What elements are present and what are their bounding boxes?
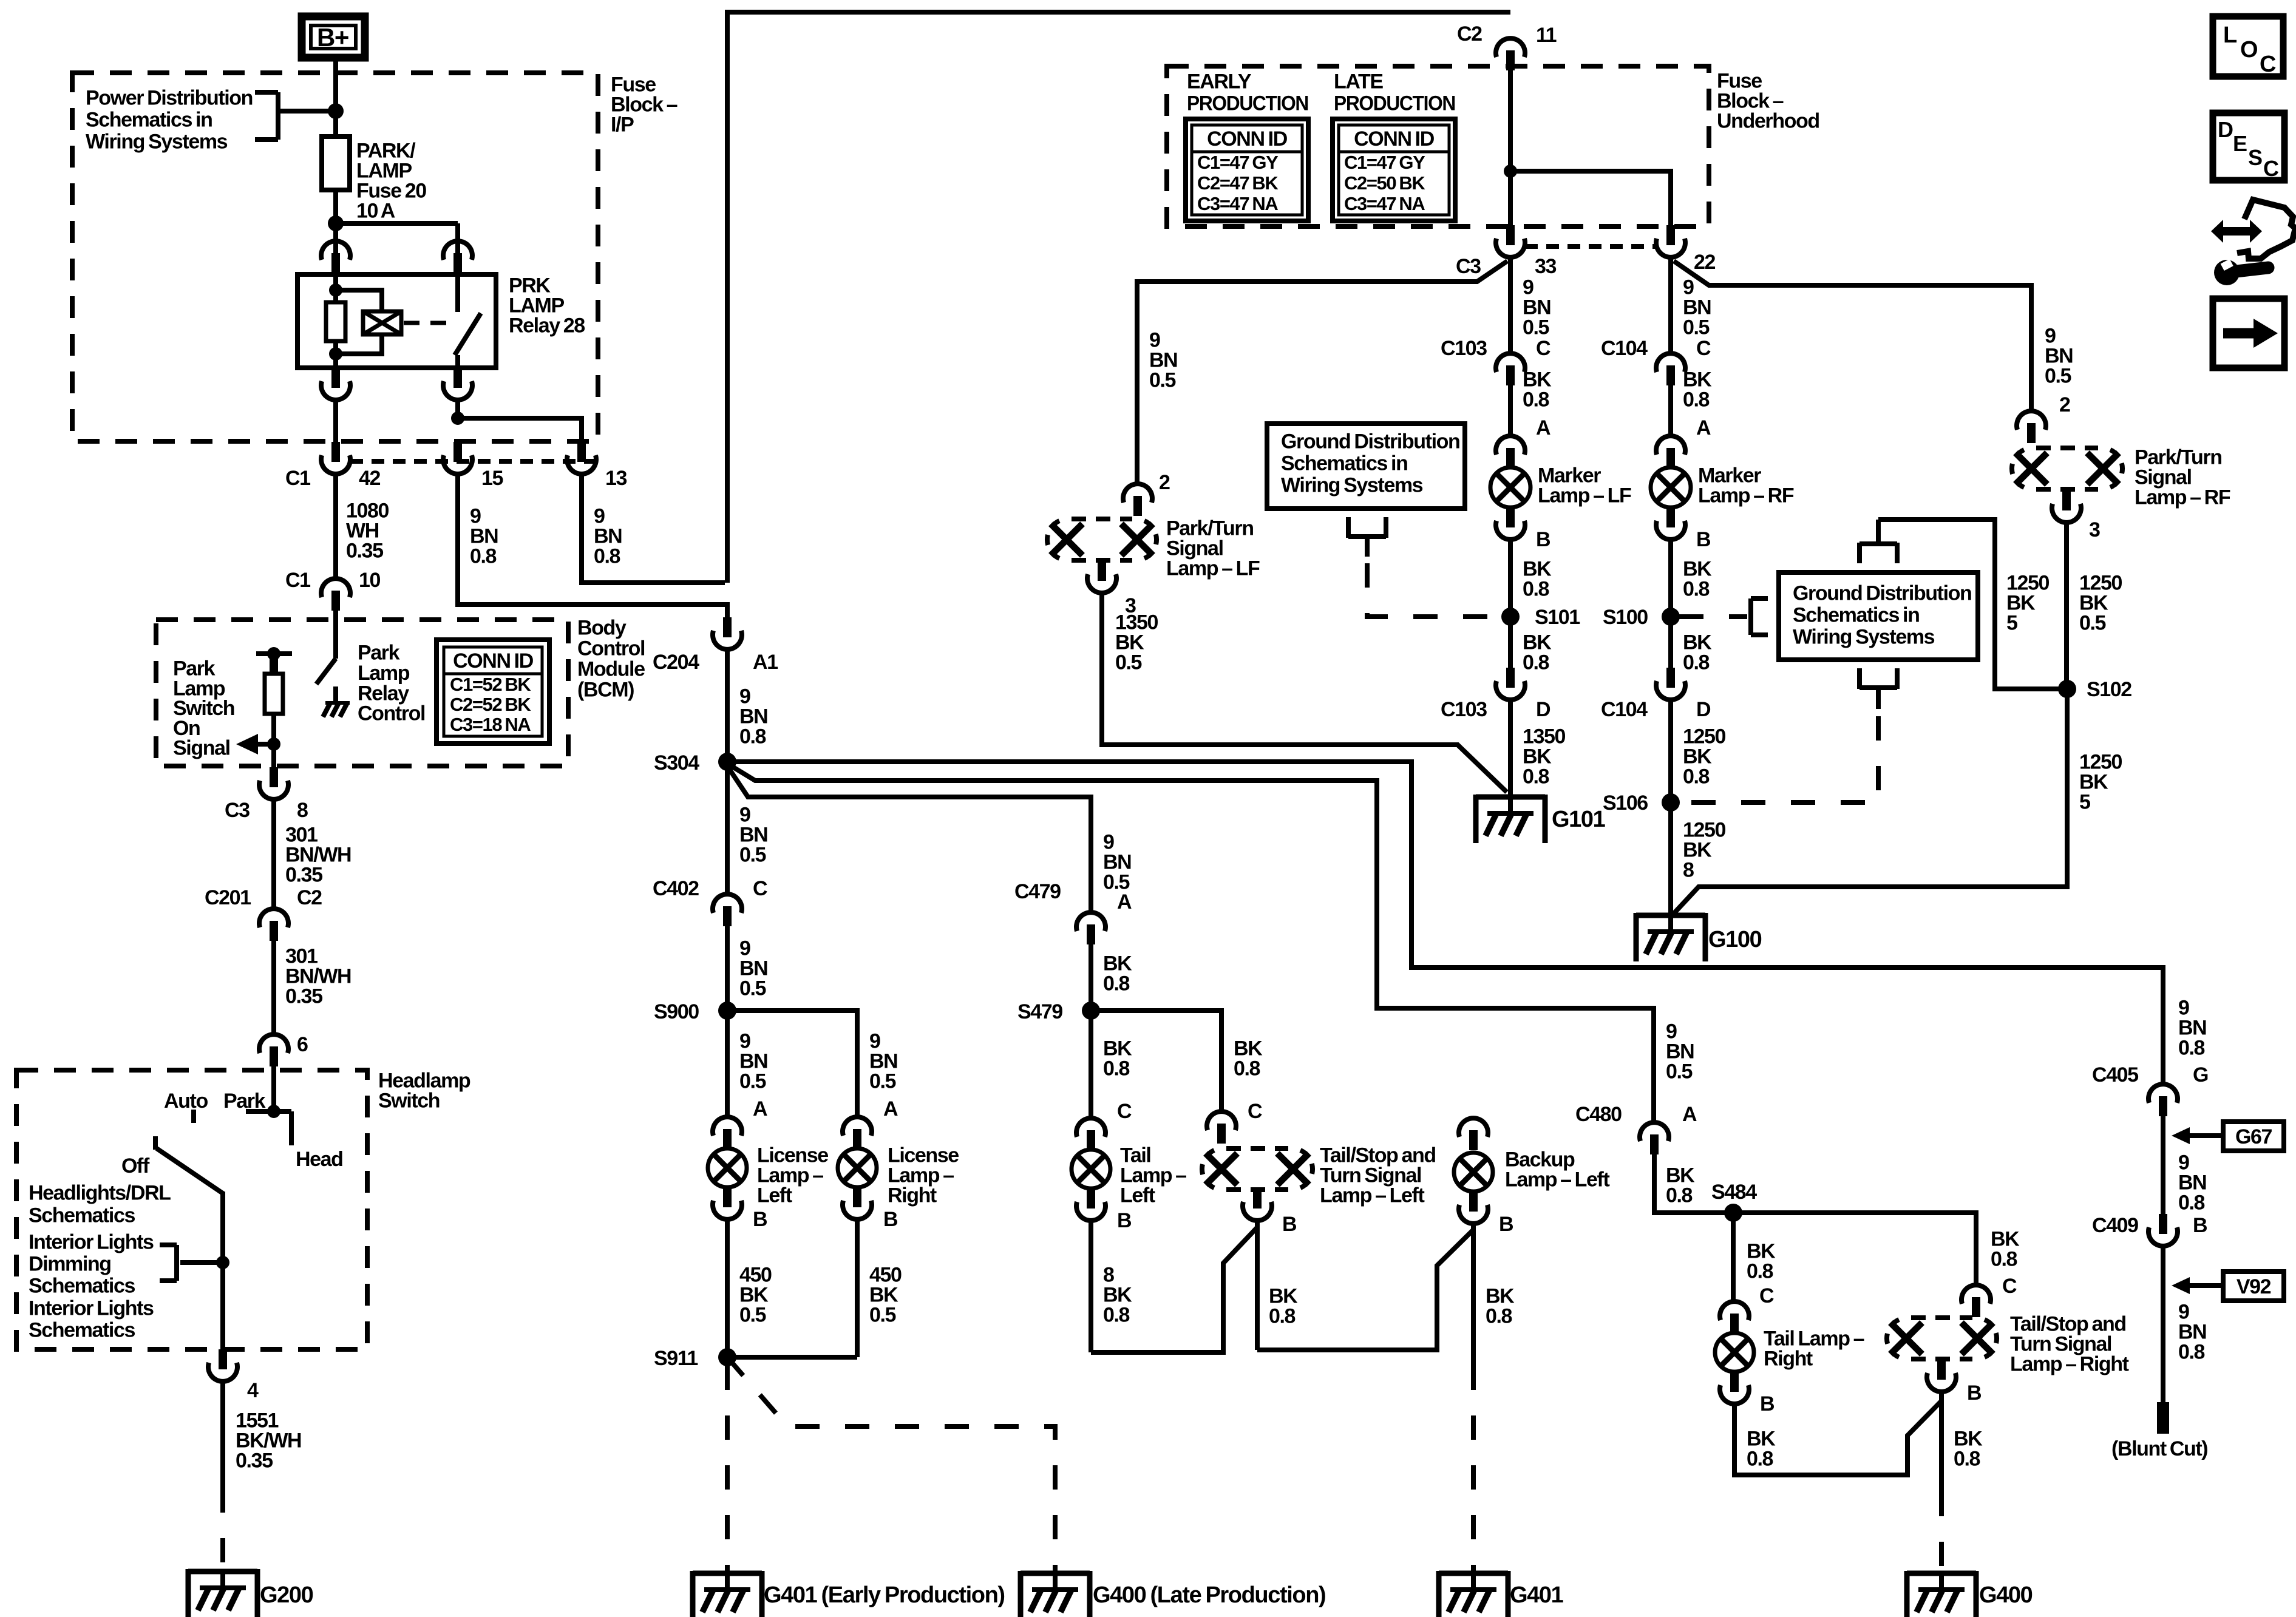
svg-text:Power Distribution: Power Distribution	[86, 87, 253, 110]
svg-text:LATE: LATE	[1334, 70, 1383, 93]
blunt cut terminal	[2157, 1402, 2169, 1434]
node park position	[267, 1105, 280, 1118]
svg-text:Lamp – RF: Lamp – RF	[2135, 486, 2230, 509]
lamp marker LF	[1490, 467, 1530, 507]
svg-text:B: B	[1499, 1213, 1513, 1236]
svg-text:CONN ID: CONN ID	[1207, 127, 1288, 151]
splice S102	[2058, 680, 2076, 698]
svg-text:0.5: 0.5	[869, 1070, 896, 1093]
ground G401 early	[693, 1571, 762, 1576]
svg-text:B: B	[1536, 528, 1550, 551]
svg-text:Dimming: Dimming	[29, 1253, 111, 1276]
svg-text:8: 8	[297, 799, 308, 822]
lamp tail right	[1715, 1333, 1754, 1372]
node relay coil top	[329, 283, 342, 297]
lamp tail left	[1072, 1150, 1110, 1188]
svg-text:C201: C201	[205, 886, 251, 909]
splice S101	[1501, 608, 1520, 626]
box ground distribution 1	[1267, 424, 1465, 509]
connector RF lamp 2	[2017, 411, 2046, 430]
wire fuse to relay	[333, 190, 338, 253]
connector license left A	[713, 1117, 742, 1136]
svg-text:Lamp – Right: Lamp – Right	[2010, 1353, 2129, 1376]
svg-text:V92: V92	[2237, 1275, 2271, 1298]
connector backup top	[1459, 1118, 1488, 1137]
svg-text:22: 22	[1694, 251, 1716, 274]
svg-text:S911: S911	[654, 1347, 698, 1370]
wire switch down	[220, 1192, 225, 1349]
svg-text:Ground Distribution: Ground Distribution	[1793, 582, 1971, 605]
ground G400 late	[1021, 1571, 1090, 1576]
svg-text:3: 3	[2089, 518, 2100, 541]
relay coil symbol	[363, 311, 401, 334]
svg-text:G: G	[2193, 1063, 2208, 1086]
wire to bracket	[278, 109, 336, 114]
svg-text:Relay 28: Relay 28	[509, 314, 585, 337]
node power distribution tap	[328, 103, 344, 119]
svg-text:Control: Control	[577, 637, 645, 660]
svg-text:0.8: 0.8	[594, 545, 620, 568]
icon LOC box	[2213, 16, 2283, 76]
svg-text:E: E	[2233, 131, 2247, 156]
svg-text:A: A	[1682, 1103, 1697, 1126]
svg-text:B: B	[1117, 1209, 1132, 1232]
svg-text:Wiring Systems: Wiring Systems	[1281, 474, 1423, 497]
svg-text:S900: S900	[654, 1000, 699, 1023]
svg-text:Underhood: Underhood	[1717, 110, 1819, 133]
svg-text:0.35: 0.35	[236, 1449, 273, 1473]
wire relay switch out	[455, 401, 460, 418]
wire 301 BN/WH lower	[271, 941, 276, 1033]
wire C480 down	[1654, 1154, 1733, 1213]
node underhood split	[1504, 164, 1517, 178]
headlamp switch blade	[157, 1148, 223, 1193]
svg-text:Lamp – Left: Lamp – Left	[1320, 1184, 1424, 1207]
wire LF lamp ground	[1102, 594, 1507, 792]
wire 22 down	[1668, 259, 1673, 352]
svg-text:Schematics: Schematics	[29, 1319, 135, 1342]
wire tail right down	[1734, 1401, 1941, 1475]
svg-text:10 A: 10 A	[356, 200, 395, 223]
connector C201	[259, 909, 288, 927]
svg-text:A1: A1	[753, 651, 778, 674]
svg-text:B: B	[1282, 1213, 1297, 1236]
svg-text:A: A	[1696, 416, 1711, 439]
wire coil branch	[336, 290, 382, 313]
ground G100	[1636, 913, 1705, 918]
svg-text:0.5: 0.5	[739, 1304, 766, 1327]
node signal top	[267, 647, 280, 660]
wire C409 down	[2161, 1247, 2165, 1405]
svg-text:C2=50 BK: C2=50 BK	[1344, 172, 1425, 194]
svg-text:G101: G101	[1552, 807, 1606, 832]
svg-text:Schematics: Schematics	[29, 1275, 135, 1298]
splice S911	[718, 1348, 736, 1366]
connector C1 pin 15	[453, 442, 462, 462]
fuse PARK/LAMP Fuse 20	[322, 137, 350, 190]
wire license left down	[725, 1221, 730, 1357]
connector tail left C	[1076, 1118, 1106, 1137]
svg-text:Interior Lights: Interior Lights	[29, 1297, 154, 1320]
wire branch to relay switch	[336, 221, 458, 226]
svg-text:0.5: 0.5	[1115, 651, 1142, 674]
svg-text:G100: G100	[1708, 927, 1762, 952]
off contact stub	[153, 1136, 158, 1150]
svg-text:S304: S304	[654, 751, 699, 775]
svg-text:C104: C104	[1601, 698, 1648, 721]
svg-text:0.8: 0.8	[1683, 651, 1710, 674]
svg-text:2: 2	[1159, 471, 1170, 494]
splice S100	[1662, 608, 1680, 626]
park contact bar	[246, 1109, 291, 1114]
svg-text:Schematics in: Schematics in	[1793, 604, 1919, 627]
svg-text:PRODUCTION: PRODUCTION	[1187, 92, 1308, 115]
svg-text:PRODUCTION: PRODUCTION	[1334, 92, 1455, 115]
lamp backup left	[1454, 1153, 1493, 1192]
svg-text:Relay: Relay	[358, 682, 409, 705]
lamp tailstop left	[1226, 1146, 1288, 1151]
wire tailstop right down	[1939, 1393, 1944, 1492]
node relay coil bottom	[329, 347, 342, 361]
wire S484 right	[1733, 1213, 1976, 1284]
svg-text:0.8: 0.8	[1523, 388, 1549, 412]
connector marker RF A	[1656, 436, 1685, 455]
relay switch out wire	[455, 355, 460, 368]
fuse block underhood dashed box	[1167, 66, 1709, 226]
connector C103 D	[1506, 668, 1515, 688]
connector RF lamp 3	[2062, 490, 2071, 510]
wire S911 bar	[727, 1355, 857, 1360]
svg-text:Park: Park	[223, 1090, 266, 1113]
wire pin15 to C204	[458, 475, 727, 617]
svg-text:0.5: 0.5	[739, 844, 766, 867]
svg-text:0.5: 0.5	[1683, 316, 1710, 339]
svg-text:C2=52 BK: C2=52 BK	[450, 694, 531, 715]
svg-text:G400 (Late Production): G400 (Late Production)	[1093, 1582, 1325, 1608]
svg-text:Body: Body	[577, 617, 627, 640]
pointer bracket interior lights dimming	[174, 1245, 179, 1281]
svg-text:Lamp – RF: Lamp – RF	[1698, 484, 1794, 507]
svg-text:C479: C479	[1014, 880, 1061, 903]
wire C2 into block	[1508, 70, 1513, 225]
box ground distribution 2	[1779, 572, 1978, 660]
svg-text:B: B	[1696, 528, 1711, 551]
svg-text:Wiring Systems: Wiring Systems	[1793, 626, 1935, 649]
wire resistor down	[271, 714, 276, 767]
svg-text:C3=47 NA: C3=47 NA	[1197, 193, 1278, 214]
svg-text:0.5: 0.5	[1666, 1060, 1693, 1083]
svg-text:C3=47 NA: C3=47 NA	[1344, 193, 1425, 214]
svg-text:C: C	[2263, 156, 2279, 181]
svg-text:Schematics: Schematics	[29, 1204, 135, 1227]
svg-text:CONN ID: CONN ID	[453, 649, 534, 673]
connector row C1 dotted line	[350, 459, 598, 464]
svg-text:A: A	[1536, 416, 1550, 439]
arrow park lamp switch signal	[251, 742, 274, 747]
svg-text:0.5: 0.5	[739, 977, 766, 1000]
svg-text:0.8: 0.8	[1103, 1057, 1130, 1080]
svg-text:B: B	[2193, 1214, 2207, 1237]
svg-text:I/P: I/P	[611, 114, 634, 137]
connector C1 pin 10	[321, 578, 350, 597]
connector license right B	[853, 1187, 861, 1207]
wire backup down	[1471, 1225, 1476, 1366]
svg-text:0.8: 0.8	[1991, 1248, 2017, 1271]
wire S304 branch1 to C405 column	[727, 762, 2163, 1083]
svg-text:D: D	[1696, 698, 1711, 721]
wire C103D to G101	[1508, 701, 1513, 797]
connector C1 pin 13	[577, 442, 586, 462]
svg-text:C: C	[2260, 52, 2276, 77]
lamp tailstop right	[1911, 1315, 1972, 1320]
wire main feed top	[727, 10, 1510, 15]
svg-text:0.8: 0.8	[1269, 1305, 1296, 1328]
svg-text:11: 11	[1536, 24, 1557, 47]
connector backup B	[1469, 1192, 1478, 1212]
connector C3 33	[1506, 225, 1515, 245]
wire S911 dashed to G401 early	[725, 1366, 730, 1573]
connector relay coil out	[331, 368, 340, 388]
wire C402 to S900	[725, 926, 730, 1011]
svg-text:C103: C103	[1441, 698, 1487, 721]
svg-text:0.8: 0.8	[1747, 1448, 1773, 1471]
wire license right down	[855, 1221, 860, 1357]
BCM relay control contact	[333, 686, 338, 701]
svg-text:B: B	[883, 1208, 898, 1231]
icon arrow box	[2213, 299, 2284, 368]
svg-text:42: 42	[359, 467, 381, 490]
fuse block I/P dashed box	[72, 73, 598, 441]
connector C104 D	[1666, 668, 1675, 688]
svg-text:5: 5	[2006, 612, 2017, 635]
connector C1 pin 42	[331, 442, 340, 462]
wire tail left down	[1089, 1222, 1093, 1352]
svg-text:33: 33	[1535, 255, 1557, 278]
wire gd2 to S102	[1878, 520, 2059, 689]
svg-text:Control: Control	[358, 702, 425, 725]
wire S479 branch	[1091, 1011, 1221, 1110]
svg-text:0.5: 0.5	[2045, 365, 2071, 388]
connector marker RF B	[1666, 507, 1675, 527]
svg-text:0.8: 0.8	[1954, 1448, 1980, 1471]
wire feed down	[725, 10, 730, 583]
dashed link gd2 to S100	[1679, 614, 1747, 619]
svg-text:C103: C103	[1441, 337, 1487, 360]
wire C479 to S479	[1089, 944, 1093, 1011]
svg-text:C1=47 GY: C1=47 GY	[1344, 152, 1425, 173]
svg-text:4: 4	[247, 1379, 259, 1402]
relay switch blade	[455, 313, 481, 355]
svg-text:C1: C1	[285, 467, 310, 490]
box G67	[2223, 1122, 2284, 1151]
relay PRK LAMP Relay 28 box	[297, 274, 496, 368]
wire B+ down	[333, 56, 338, 137]
svg-text:6: 6	[297, 1033, 308, 1056]
wire tailstop left down	[1255, 1222, 1260, 1350]
connector C3 pin 8	[270, 767, 278, 787]
lamp marker RF	[1651, 467, 1691, 507]
svg-text:0.5: 0.5	[1523, 316, 1549, 339]
box V92	[2223, 1272, 2284, 1301]
pointer bracket gd2 bottom	[1860, 685, 1897, 690]
connector tail left B	[1087, 1188, 1095, 1209]
svg-text:O: O	[2240, 37, 2257, 63]
wire U1 splice	[1091, 1227, 1257, 1352]
svg-text:Lamp – Left: Lamp – Left	[1505, 1168, 1609, 1192]
svg-text:EARLY: EARLY	[1187, 70, 1252, 93]
wire 33 down	[1508, 259, 1513, 352]
svg-text:0.5: 0.5	[1149, 369, 1176, 392]
wire 22 to RF lamp	[1674, 261, 2031, 410]
svg-text:0.35: 0.35	[346, 540, 383, 563]
splice S484	[1724, 1204, 1742, 1222]
svg-text:Signal: Signal	[173, 737, 230, 760]
pointer bracket gd1	[1348, 534, 1386, 539]
BCM internal ground	[325, 701, 350, 705]
wire coil branch bottom	[336, 334, 382, 354]
svg-text:C: C	[1248, 1100, 1262, 1123]
connector tailstop right B	[1937, 1360, 1946, 1380]
battery B+ feed symbol	[302, 16, 365, 58]
svg-text:10: 10	[359, 569, 381, 592]
svg-text:0.5: 0.5	[869, 1304, 896, 1327]
svg-text:G401: G401	[1510, 1582, 1564, 1608]
svg-text:Interior Lights: Interior Lights	[29, 1231, 154, 1254]
svg-text:C: C	[2002, 1275, 2017, 1298]
svg-text:Schematics in: Schematics in	[86, 109, 212, 132]
svg-text:0.8: 0.8	[1103, 1304, 1130, 1327]
lamp license left	[708, 1148, 747, 1187]
wire S106 to G100	[1668, 811, 1673, 915]
wire marker RF down	[1668, 541, 1673, 668]
wire C103 down	[1508, 385, 1513, 435]
node switch out	[451, 412, 464, 425]
connector tailstop left C	[1207, 1111, 1236, 1130]
svg-text:8: 8	[1683, 859, 1694, 882]
wire 1551 BK/WH	[220, 1383, 225, 1488]
svg-text:0.8: 0.8	[1103, 972, 1130, 995]
arrow V92	[2172, 1277, 2190, 1294]
connector C409 B	[2159, 1214, 2167, 1234]
wire branch to pin13	[458, 418, 582, 443]
pointer bracket gd2 top	[1860, 541, 1897, 546]
node dimming tap	[216, 1256, 229, 1269]
svg-text:A: A	[883, 1097, 898, 1120]
wire 301 BN/WH upper	[271, 801, 276, 907]
svg-text:C204: C204	[653, 651, 699, 674]
node signal arrow	[267, 737, 280, 751]
icon DESC box	[2213, 113, 2284, 180]
connector headlamp switch pin 4	[219, 1349, 227, 1369]
relay coil wire	[333, 274, 338, 368]
dashed link gd1 to S101	[1367, 563, 1501, 617]
splice S106	[1662, 793, 1680, 812]
svg-text:D: D	[2218, 117, 2233, 142]
wire C405 down	[2161, 1116, 2165, 1214]
svg-text:Right: Right	[1764, 1347, 1813, 1371]
splice S304	[718, 753, 736, 771]
svg-text:(Blunt Cut): (Blunt Cut)	[2111, 1437, 2207, 1460]
ground G101	[1476, 795, 1545, 800]
svg-text:Park: Park	[358, 642, 400, 665]
connector relay switch pin	[443, 241, 472, 260]
connector C204 A1	[723, 617, 732, 637]
svg-text:0.35: 0.35	[285, 985, 322, 1008]
svg-text:G400: G400	[1979, 1582, 2033, 1608]
wire S304 branch2 to C480	[727, 764, 1654, 1121]
connector C405 G	[2148, 1084, 2178, 1103]
connector tail right B	[1730, 1372, 1739, 1392]
BCM signal bar	[256, 651, 292, 656]
svg-text:Left: Left	[1120, 1184, 1155, 1207]
svg-text:Headlights/DRL: Headlights/DRL	[29, 1182, 171, 1205]
svg-text:0.35: 0.35	[285, 864, 322, 887]
lamp park turn RF	[2036, 446, 2098, 450]
svg-text:0.8: 0.8	[1523, 765, 1549, 788]
wire dashed to G400	[1939, 1492, 1944, 1573]
wire S484 down	[1731, 1221, 1736, 1300]
connector LF lamp 3	[1098, 561, 1106, 581]
wire marker LF down	[1508, 541, 1513, 668]
splice S900	[718, 1002, 736, 1020]
connector C480 A	[1640, 1122, 1669, 1141]
wire U2 splice	[1257, 1230, 1473, 1350]
BCM dashed box	[156, 620, 568, 766]
svg-text:B: B	[1760, 1392, 1775, 1415]
svg-text:S100: S100	[1603, 606, 1648, 629]
svg-text:Wiring Systems: Wiring Systems	[86, 131, 228, 154]
svg-text:Head: Head	[296, 1148, 343, 1171]
svg-text:S102: S102	[2087, 678, 2131, 701]
pointer bracket power distribution	[276, 92, 280, 140]
BCM CONN ID table	[436, 640, 549, 744]
pointer bracket gd2 left	[1748, 598, 1753, 635]
auto contact stub	[191, 1110, 196, 1123]
svg-text:0.8: 0.8	[1523, 578, 1549, 601]
svg-text:Ground Distribution: Ground Distribution	[1281, 430, 1459, 453]
connector marker LF B	[1506, 507, 1515, 527]
svg-text:0.8: 0.8	[739, 725, 766, 748]
svg-text:C2: C2	[297, 886, 322, 909]
connector pin 22	[1666, 225, 1675, 245]
svg-text:C: C	[1759, 1284, 1774, 1307]
wire S911 dashed to G400 late	[727, 1357, 1055, 1573]
dashed link gd2 to S106	[1679, 716, 1878, 802]
svg-text:S: S	[2248, 145, 2262, 170]
svg-text:C1=52 BK: C1=52 BK	[450, 674, 531, 695]
svg-text:C2=47 BK: C2=47 BK	[1197, 172, 1279, 194]
svg-text:5: 5	[2079, 791, 2090, 814]
wire 33 to LF lamp	[1137, 261, 1507, 483]
connector row underhood dotted	[1525, 244, 1656, 249]
connector C104 C	[1656, 353, 1685, 372]
connector tailstop left B	[1253, 1188, 1262, 1209]
BCM relay control switch blade	[316, 659, 336, 684]
splice S479	[1082, 1002, 1100, 1020]
lamp license right	[838, 1148, 877, 1187]
svg-text:C104: C104	[1601, 337, 1648, 360]
wire relay coil out	[333, 401, 338, 443]
connector license right A	[843, 1117, 872, 1136]
svg-text:G401 (Early Production): G401 (Early Production)	[764, 1582, 1005, 1608]
svg-text:S106: S106	[1603, 792, 1648, 815]
connector C402 C	[713, 894, 742, 913]
relay resistor	[326, 302, 345, 341]
ground G200	[188, 1569, 257, 1575]
connector headlamp switch pin 6	[259, 1034, 288, 1053]
BCM signal blade	[270, 654, 278, 674]
arrow G67	[2172, 1127, 2190, 1144]
